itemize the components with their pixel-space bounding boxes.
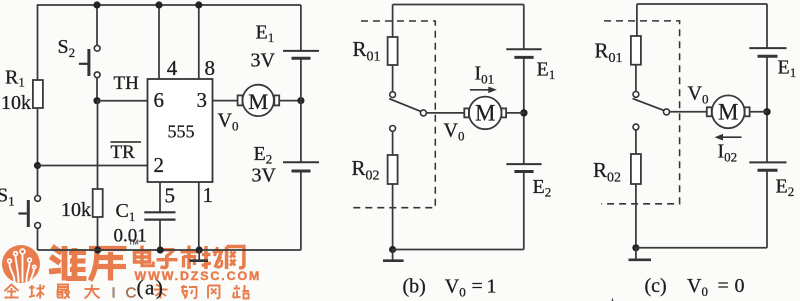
battery E2 (b): [506, 164, 541, 171]
battery E2 (c): [749, 162, 786, 170]
wire motor to junction (c): [750, 111, 767, 113]
watermark bold glyphs dianzishichangwang: [135, 246, 244, 270]
svg-text:10k: 10k: [1, 92, 31, 114]
switch pole (c): [664, 109, 670, 115]
wire right rail lower (b): [523, 172, 525, 250]
wire 10k resistor lower: [97, 217, 99, 250]
switch pole (b): [420, 110, 426, 116]
wire S2 upper: [96, 5, 98, 45]
svg-text:555: 555: [168, 122, 195, 142]
wire right rail mid (a): [300, 58, 302, 162]
wire left rail mid (a): [37, 108, 39, 196]
svg-text:10k: 10k: [61, 199, 91, 221]
wire motor to junction (b): [506, 112, 524, 114]
resistor R01 (b): [388, 37, 398, 65]
node C1 bottom junction: [157, 246, 164, 253]
svg-text:TH: TH: [114, 73, 140, 94]
switch contact bottom (c): [633, 124, 639, 130]
wire pin 4: [158, 5, 160, 79]
wire top rail (c): [637, 3, 767, 5]
wire right rail mid (c): [766, 56, 768, 162]
wire pin 1 down: [198, 182, 200, 250]
wire R02 bottom lead (c): [635, 184, 637, 248]
wire R01 top lead (b): [392, 5, 394, 38]
node bottom junction (c): [632, 244, 639, 251]
ground: [189, 250, 208, 261]
wire R01 bottom lead (c): [635, 65, 637, 92]
motor M (c): [707, 95, 750, 128]
wire top rail (a): [37, 4, 301, 6]
watermark text weiku solid glyphs: [49, 246, 127, 281]
battery E1 (b): [506, 49, 541, 57]
wire R01 bottom lead (b): [392, 65, 394, 92]
wire right rail lower (c): [766, 170, 768, 248]
wire pole to motor (b): [426, 112, 464, 114]
op-amp U1 555 timer box: [148, 79, 213, 182]
svg-text:C: C: [126, 285, 137, 301]
ground (b): [383, 250, 404, 261]
switch blade (c): [633, 99, 664, 111]
capacitor C1: [144, 212, 175, 219]
motor M (b): [464, 97, 506, 130]
watermark logo circle: [2, 245, 40, 283]
node S2 top junction: [93, 1, 100, 8]
svg-text:8: 8: [205, 56, 216, 80]
svg-text:(a): (a): [137, 276, 165, 300]
wire contact to R02 (c): [635, 130, 637, 154]
svg-text:I: I: [112, 285, 116, 301]
wire right rail top (b): [523, 5, 525, 50]
node pin8 top junction: [195, 1, 202, 8]
wire pin 8: [198, 5, 200, 79]
resistor R1: [33, 80, 43, 108]
svg-text:0.01: 0.01: [114, 226, 147, 247]
wire bottom rail (b): [393, 249, 524, 251]
dashed feedback box (c): [601, 21, 679, 204]
node TH junction: [93, 97, 100, 104]
wire R02 bottom lead (b): [392, 184, 394, 250]
resistor R02 (b): [388, 155, 398, 184]
node motor-battery junction: [297, 97, 304, 104]
svg-text:6: 6: [154, 88, 165, 112]
wire right rail bottom (a): [300, 171, 302, 250]
switch S2: [79, 45, 100, 77]
svg-text:3V: 3V: [251, 50, 276, 72]
node bottom junction (b): [389, 246, 396, 253]
switch contact top (b): [390, 92, 396, 98]
wire right rail top (a): [300, 5, 302, 51]
wire pin 3 to motor: [213, 100, 238, 102]
wire R01 top lead (c): [636, 4, 638, 36]
node pin4 top junction: [155, 1, 162, 8]
wire top rail (b): [393, 4, 524, 6]
wire right rail top (c): [766, 4, 768, 48]
switch contact top (c): [633, 92, 639, 98]
svg-text:M: M: [475, 101, 495, 126]
svg-text:TR: TR: [111, 142, 136, 163]
wire TR to pin 2: [38, 165, 148, 167]
wire left rail upper (a): [37, 5, 39, 80]
svg-text:4: 4: [167, 56, 178, 80]
node pin1 bottom junction: [196, 246, 203, 253]
watermark slogan small glyphs: [5, 285, 250, 299]
svg-text:1: 1: [203, 183, 214, 207]
wire TH to pin 6: [97, 100, 148, 102]
wire motor to right rail: [279, 100, 301, 102]
svg-text:(b): (b): [403, 276, 426, 298]
motor M (a): [238, 85, 280, 116]
node motor junction (b): [520, 109, 527, 116]
svg-text:3: 3: [197, 88, 208, 112]
node motor junction (c): [763, 108, 770, 115]
battery E1 (c): [749, 48, 786, 56]
battery E1 (a): [283, 51, 319, 58]
wire left rail lower (a): [37, 228, 39, 250]
wire pin 5 to capacitor: [159, 182, 161, 212]
svg-text:M: M: [718, 100, 738, 125]
node 10k-ground junction: [94, 246, 101, 253]
svg-text:M: M: [248, 89, 268, 114]
wire bottom rail (c): [636, 247, 767, 249]
switch contact bottom (b): [390, 125, 396, 131]
wire 10k resistor upper: [97, 101, 99, 189]
battery E2 (a): [283, 162, 319, 171]
resistor R01 (c): [631, 36, 641, 65]
ground (c): [629, 248, 652, 260]
switch blade (b): [389, 99, 420, 112]
node TR junction: [34, 162, 41, 169]
switch S1: [18, 196, 40, 229]
wire bottom rail (a): [38, 249, 301, 251]
resistor R02 (c): [631, 154, 641, 184]
svg-text:V0=1: V0=1: [445, 276, 497, 300]
wire pole to motor (c): [670, 111, 707, 113]
arrow I02: [715, 134, 742, 141]
wire right rail mid (b): [523, 57, 525, 164]
wire capacitor to bottom rail: [159, 220, 161, 250]
resistor 10k: [93, 189, 103, 217]
wire S2 lower to TH node: [96, 78, 98, 101]
dashed feedback box (b): [349, 21, 436, 208]
small ink speck: [612, 298, 614, 301]
svg-text:3V: 3V: [252, 165, 277, 187]
wire contact to R02 (b): [392, 131, 394, 155]
svg-text:2: 2: [154, 153, 165, 177]
arrow I01: [470, 87, 497, 94]
svg-text:5: 5: [165, 184, 176, 208]
svg-text:(c): (c): [645, 275, 667, 297]
